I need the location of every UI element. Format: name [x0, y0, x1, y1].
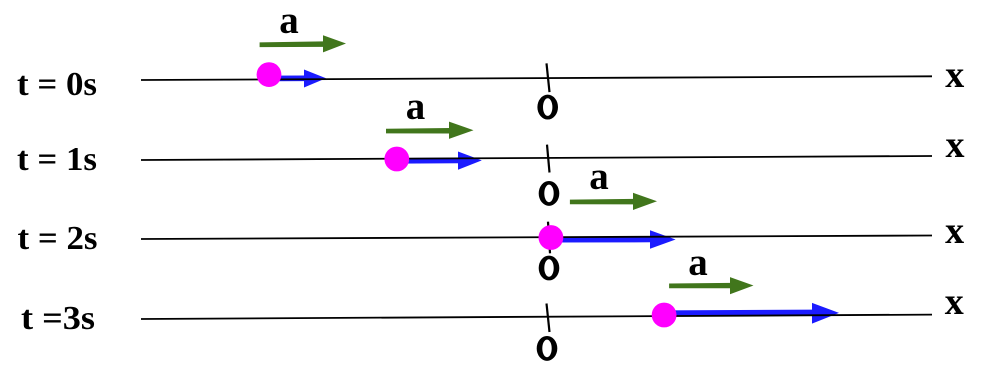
svg-text:t = 2s: t = 2s: [18, 220, 98, 257]
x-axis line row 1: [141, 76, 932, 80]
svg-text:t =3s: t =3s: [21, 300, 95, 337]
svg-text:x: x: [946, 124, 965, 166]
svg-text:a: a: [279, 0, 299, 42]
x-axis line row 2: [141, 156, 932, 160]
origin tick row 4: [547, 304, 550, 333]
svg-text:a: a: [688, 241, 708, 284]
origin label O row 1: [537, 95, 558, 120]
svg-text:a: a: [589, 155, 609, 198]
svg-text:x: x: [945, 281, 964, 323]
origin tick row 3: [548, 222, 550, 254]
svg-text:t = 1s: t = 1s: [17, 141, 97, 178]
velocity arrow row 3 (blue): [552, 230, 676, 249]
particle dot row 1 (magenta): [257, 62, 282, 87]
svg-text:x: x: [945, 210, 964, 252]
particle dot row 4 (magenta): [652, 303, 677, 328]
x-axis line row 3: [141, 236, 932, 240]
velocity arrow row 4 (blue): [666, 303, 839, 324]
origin label O row 2: [539, 181, 560, 206]
svg-text:t = 0s: t = 0s: [17, 66, 97, 103]
x-axis line row 4: [141, 315, 932, 319]
origin label O row 4: [537, 336, 558, 361]
velocity arrow row 2 (blue): [398, 152, 482, 170]
svg-text:a: a: [406, 85, 426, 128]
velocity arrow row 1 (blue): [270, 70, 326, 88]
origin tick row 2: [547, 145, 550, 173]
particle dot row 2 (magenta): [384, 147, 409, 172]
acceleration arrow row 4 (green): [669, 277, 753, 294]
particle dot row 3 (magenta): [539, 225, 564, 250]
acceleration arrow row 2 (green): [386, 122, 474, 139]
origin tick row 1: [547, 63, 550, 92]
acceleration arrow row 3 (green): [570, 193, 657, 210]
acceleration arrow row 1 (green): [260, 35, 346, 52]
origin label O row 3: [539, 256, 560, 281]
svg-text:x: x: [945, 54, 964, 96]
